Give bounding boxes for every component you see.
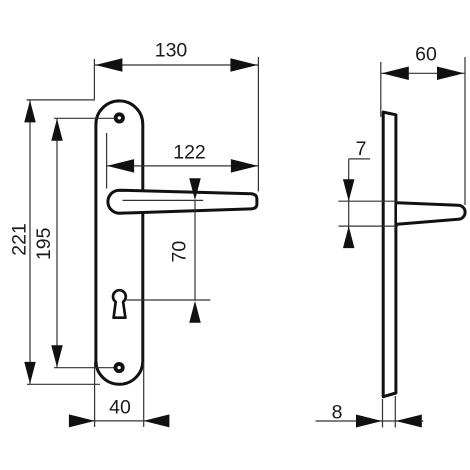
svg-text:60: 60 bbox=[415, 44, 437, 66]
svg-text:70: 70 bbox=[169, 241, 191, 263]
svg-text:122: 122 bbox=[173, 142, 206, 164]
svg-text:7: 7 bbox=[356, 138, 367, 160]
svg-text:8: 8 bbox=[332, 402, 343, 424]
svg-text:40: 40 bbox=[109, 397, 131, 419]
svg-text:195: 195 bbox=[33, 227, 55, 260]
svg-text:130: 130 bbox=[155, 40, 188, 62]
svg-text:221: 221 bbox=[9, 223, 31, 256]
